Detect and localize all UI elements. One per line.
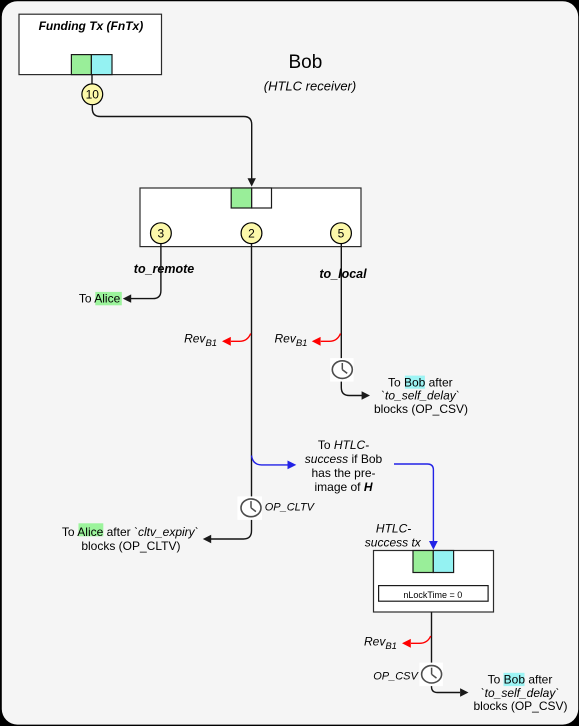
svg-text:`to_self_delay`: `to_self_delay` (481, 686, 560, 700)
htlc-success tx box (374, 551, 494, 613)
revocation arrow on htlc output (231, 334, 251, 342)
svg-text:3: 3 (158, 227, 165, 241)
arrowhead into commitment tx (248, 178, 256, 186)
arrowhead to Alice-after text (203, 535, 211, 543)
clock on htlc-success wire (OP_CSV) (419, 663, 443, 687)
Bob highlight (bottom text) (504, 673, 525, 686)
blue wire to htlc-success tx (394, 464, 433, 541)
svg-text:To Alice: To Alice (79, 291, 121, 305)
wire funding to value circle 10 (91, 75, 93, 84)
funding tx box FnTx (19, 14, 162, 74)
svg-text:10: 10 (86, 88, 100, 102)
svg-text:has the pre-: has the pre- (311, 466, 375, 480)
funding output green square (71, 55, 91, 75)
svg-text:`to_self_delay`: `to_self_delay` (381, 389, 460, 403)
arrowhead to Alice (123, 294, 131, 302)
svg-text:blocks (OP_CLTV): blocks (OP_CLTV) (81, 539, 180, 553)
wire circle 5 down (to_local output) (341, 244, 362, 396)
commitment tx box (140, 188, 361, 247)
svg-text:To Bob after: To Bob after (488, 672, 553, 686)
funding output cyan square (91, 55, 112, 75)
arrowhead revocation 3 (402, 639, 411, 648)
svg-text:blocks (OP_CSV): blocks (OP_CSV) (374, 402, 468, 416)
wire htlc box down to Bob (432, 612, 461, 692)
svg-text:2: 2 (248, 227, 255, 241)
value circle 10 (82, 84, 103, 105)
value circle 2 (241, 223, 262, 244)
svg-text:To Bob after: To Bob after (388, 375, 453, 389)
svg-text:Funding Tx (FnTx): Funding Tx (FnTx) (39, 19, 144, 33)
wire circle 2 down (htlc output) (211, 244, 252, 539)
svg-text:image of H: image of H (314, 480, 372, 494)
svg-text:To Alice after `cltv_expiry`: To Alice after `cltv_expiry` (62, 525, 199, 539)
commitment input green square (231, 188, 252, 208)
value circle 5 (331, 223, 352, 244)
revocation arrow on htlc-success output (411, 636, 431, 643)
svg-text:Bob: Bob (288, 52, 322, 73)
clock on htlc output wire (OP_CLTV) (237, 496, 262, 520)
wire circle 10 to commitment tx input (92, 105, 251, 181)
arrowhead to Bob-after (bottom) (460, 688, 468, 696)
arrowhead revocation 2 (312, 337, 321, 346)
svg-text:success if Bob: success if Bob (305, 452, 383, 466)
svg-text:to_remote: to_remote (134, 262, 194, 276)
htlc box cyan square (433, 551, 453, 573)
svg-text:success tx: success tx (365, 535, 422, 549)
blue htlc-success branch arrow (252, 456, 288, 465)
Alice highlight (cltv text) (79, 523, 104, 536)
svg-text:to_local: to_local (319, 267, 367, 281)
Bob highlight (to_local text) (405, 376, 425, 389)
Alice highlight (95, 292, 122, 305)
svg-text:To HTLC-: To HTLC- (318, 438, 369, 452)
svg-text:nLockTime = 0: nLockTime = 0 (403, 590, 462, 600)
svg-text:OP_CLTV: OP_CLTV (265, 502, 316, 514)
svg-text:5: 5 (338, 227, 345, 241)
arrowhead to Bob-after text (362, 391, 370, 399)
commitment input white square (252, 188, 272, 208)
arrowhead into htlc-success tx (429, 541, 438, 550)
clock on to_local wire (330, 358, 354, 382)
wire circle 3 to Alice (131, 244, 161, 299)
arrowhead revocation 1 (222, 337, 231, 346)
arrowhead htlc-success branch (288, 461, 297, 470)
svg-text:blocks (OP_CSV): blocks (OP_CSV) (473, 699, 567, 713)
value circle 3 (151, 223, 172, 244)
revocation arrow on to_local output (321, 334, 341, 342)
svg-text:(HTLC receiver): (HTLC receiver) (264, 79, 356, 94)
svg-text:OP_CSV: OP_CSV (373, 671, 419, 683)
svg-text:HTLC-: HTLC- (376, 522, 411, 536)
nLockTime inner box (379, 586, 489, 602)
htlc box green square (413, 551, 433, 573)
